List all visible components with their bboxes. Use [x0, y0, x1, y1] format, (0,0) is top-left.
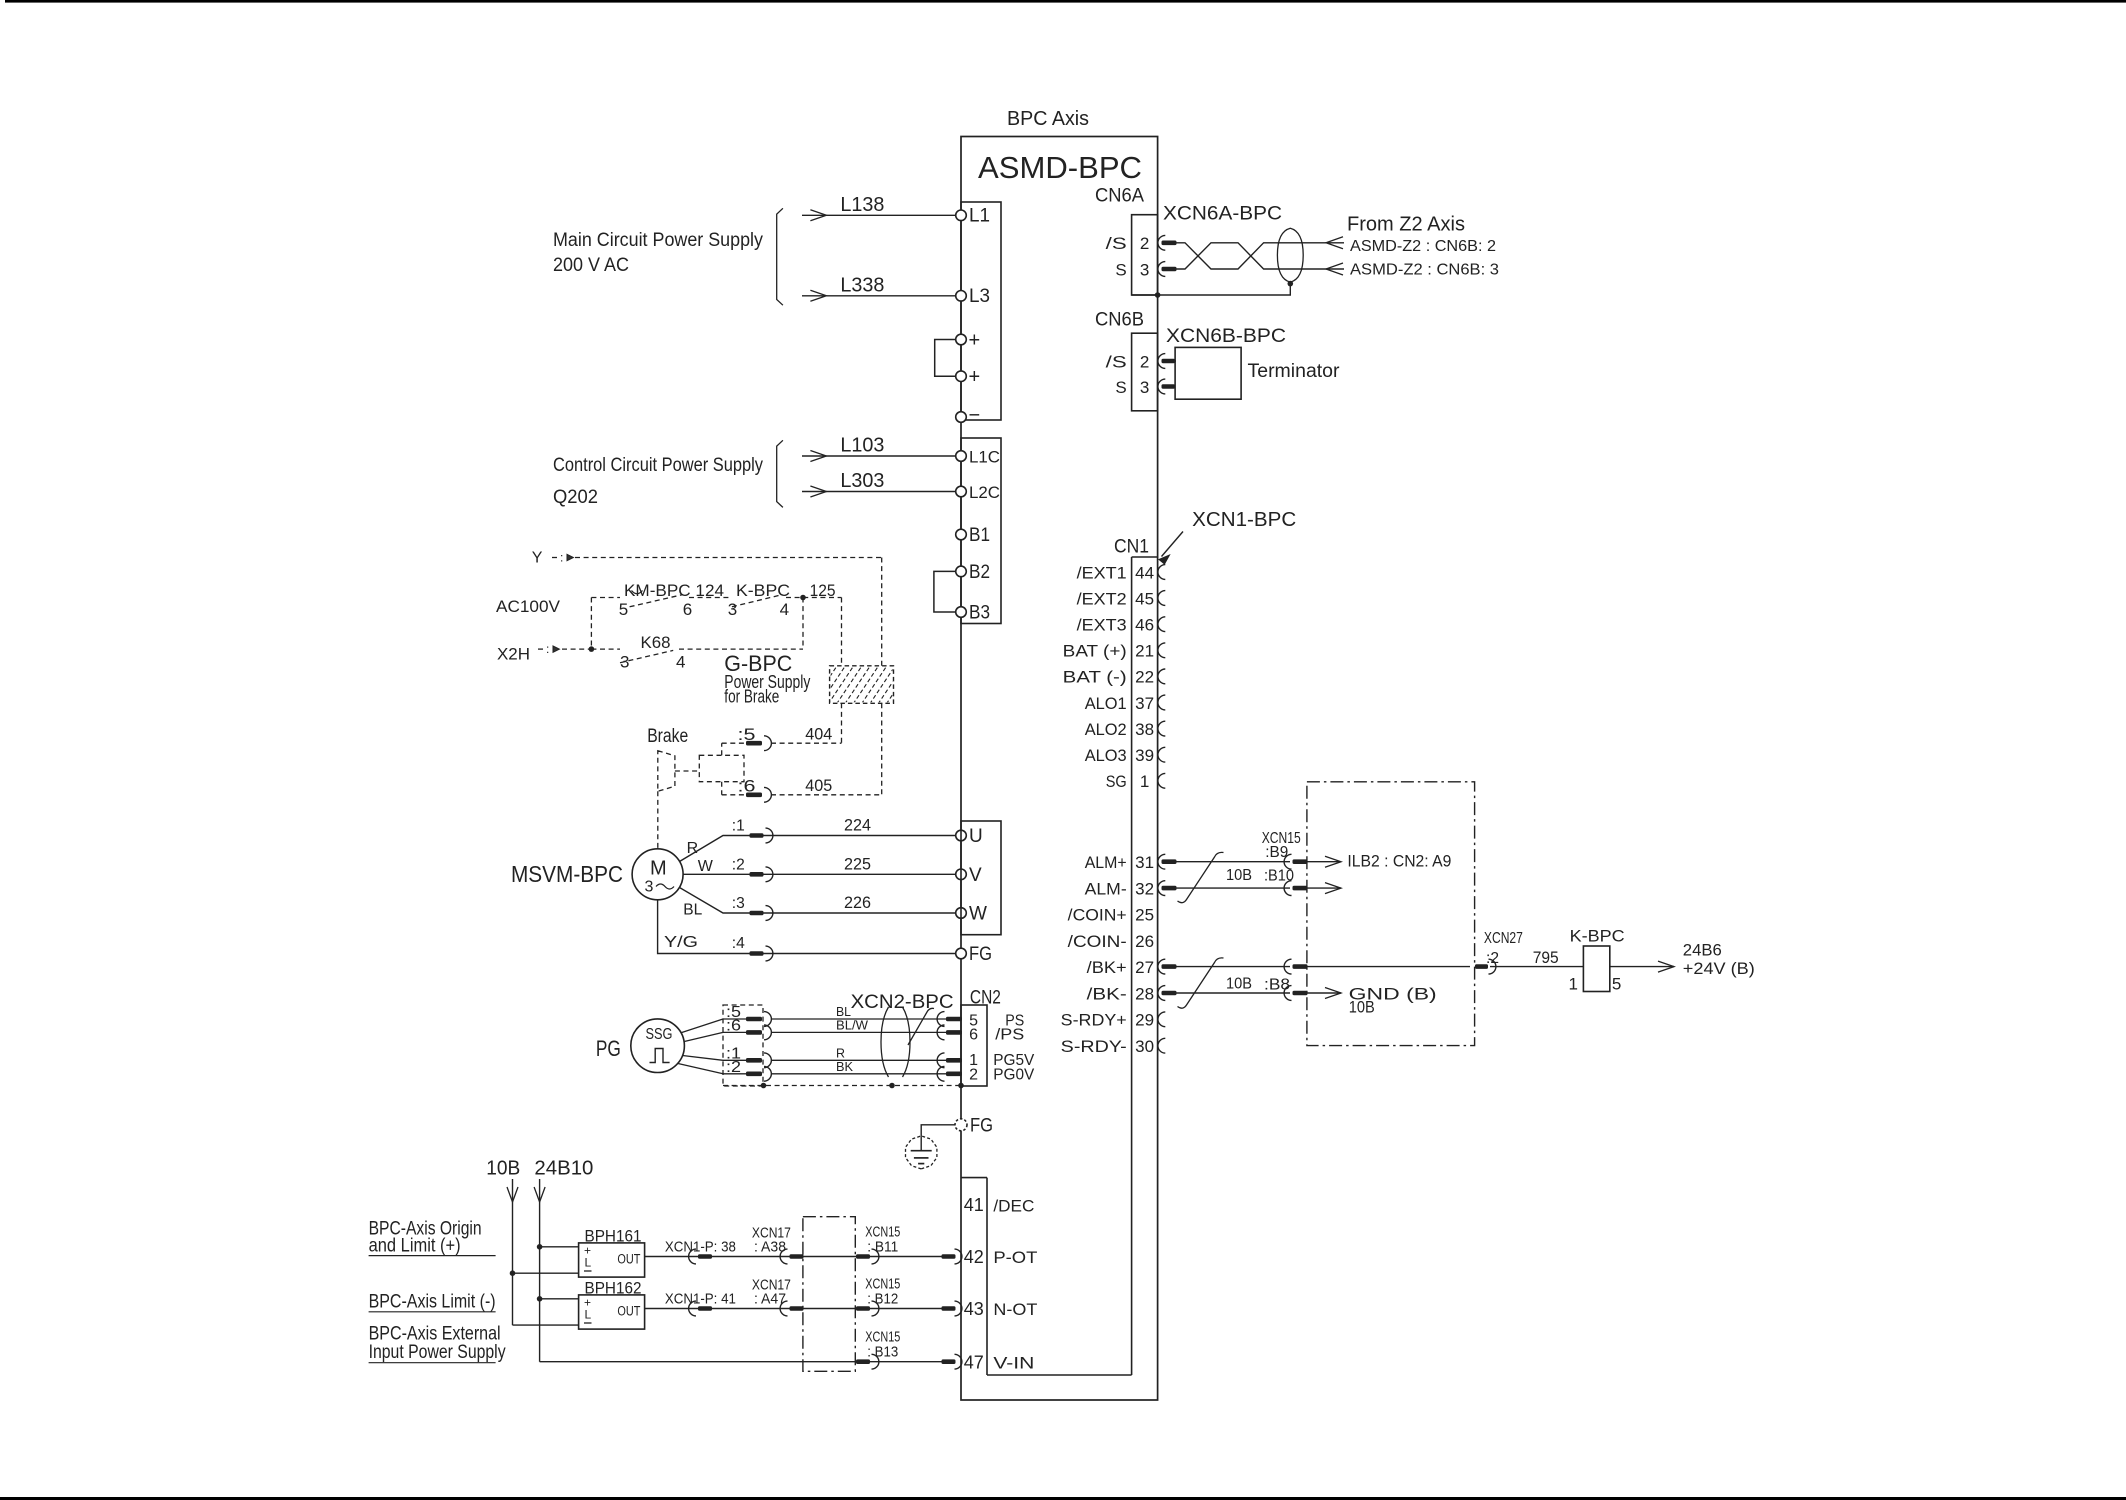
motor M circle: [632, 849, 683, 900]
brake actuator symbol: [658, 751, 675, 792]
terminal + (2): [956, 371, 967, 382]
twist symbol 27-28: [1178, 958, 1224, 1008]
wire brake coil to :5: [721, 743, 723, 755]
svg-text:/EXT2: /EXT2: [1077, 589, 1127, 608]
svg-text:BL/W: BL/W: [836, 1017, 869, 1032]
bottom border bar: [0, 1497, 2126, 1500]
brake link: [675, 770, 699, 772]
svg-text:6: 6: [683, 600, 692, 619]
svg-text:ILB2 : CN2: A9: ILB2 : CN2: A9: [1347, 852, 1451, 871]
svg-text:24B10: 24B10: [534, 1157, 593, 1179]
svg-text:24B6: 24B6: [1683, 941, 1722, 960]
svg-text:AC100V: AC100V: [496, 597, 561, 616]
svg-text:29: 29: [1135, 1011, 1154, 1030]
brace main power: [777, 208, 783, 305]
svg-text:2: 2: [1140, 352, 1149, 371]
terminal L1C: [956, 451, 967, 462]
svg-text:/BK+: /BK+: [1087, 958, 1127, 977]
svg-text:R: R: [687, 840, 699, 857]
svg-text:41: 41: [964, 1195, 984, 1215]
terminal L3: [956, 291, 967, 302]
wire L103: [802, 455, 956, 457]
svg-text:Brake: Brake: [647, 726, 688, 747]
svg-text:1: 1: [1140, 772, 1149, 791]
svg-text:/S: /S: [1106, 234, 1127, 253]
svg-text:S: S: [1115, 378, 1126, 397]
svg-text:225: 225: [844, 854, 871, 873]
svg-text:/EXT3: /EXT3: [1077, 616, 1127, 635]
svg-text:10B: 10B: [1226, 867, 1252, 884]
terminal B3: [956, 607, 967, 618]
shield return dashed wire: [723, 1085, 961, 1087]
cable shield oval: [1277, 228, 1303, 282]
svg-text:XCN1-BPC: XCN1-BPC: [1192, 509, 1296, 531]
wire +24V: [1610, 966, 1674, 968]
svg-text:PG: PG: [596, 1036, 621, 1061]
wire brake coil to :6: [721, 782, 723, 795]
svg-text:and Limit (+): and Limit (+): [369, 1236, 461, 1257]
wire ALM- 32: [1177, 887, 1291, 889]
svg-text:S-RDY+: S-RDY+: [1061, 1011, 1127, 1030]
drive unit ASMD-BPC box: [961, 137, 1158, 1401]
svg-text:1: 1: [1569, 974, 1578, 993]
svg-text::: :: [546, 642, 549, 656]
svg-text:2: 2: [969, 1066, 978, 1083]
svg-text:: B11: : B11: [867, 1238, 898, 1255]
wire BPH161 OUT to P-OT: [645, 1256, 945, 1258]
svg-text:B3: B3: [969, 603, 990, 624]
svg-text:V-IN: V-IN: [993, 1353, 1034, 1372]
wire L303: [802, 491, 956, 493]
svg-text:45: 45: [1135, 589, 1154, 608]
svg-text:ALO1: ALO1: [1085, 694, 1127, 713]
svg-text:FG: FG: [969, 944, 992, 965]
svg-text:42: 42: [964, 1247, 984, 1267]
svg-text:4: 4: [676, 653, 685, 672]
terminal L1: [956, 210, 967, 221]
shield drain wire: [1288, 281, 1294, 287]
top border bar: [5, 0, 2126, 3]
svg-text:L: L: [585, 1308, 592, 1322]
svg-text:XCN1-P: 38: XCN1-P: 38: [665, 1238, 736, 1255]
wire brake to motor dashed: [657, 791, 659, 849]
svg-text:ALO2: ALO2: [1085, 720, 1127, 739]
connector at box left 27: [1284, 959, 1291, 974]
brake coil box: [699, 755, 744, 781]
svg-text::4: :4: [732, 935, 745, 952]
svg-text:404: 404: [805, 725, 832, 744]
svg-text:ASMD-BPC: ASMD-BPC: [978, 150, 1142, 185]
wire ALM+ 31: [1177, 861, 1291, 863]
wire 795: [1490, 966, 1583, 968]
svg-text::: :: [560, 551, 563, 565]
svg-text:N-OT: N-OT: [993, 1300, 1037, 1319]
svg-text:L103: L103: [840, 435, 884, 457]
wire FG to earth: [921, 1125, 955, 1136]
CN2 connector box: [961, 1005, 987, 1086]
svg-text:L1: L1: [969, 206, 990, 227]
PG circle SSG: [631, 1019, 685, 1073]
svg-text:Terminator: Terminator: [1248, 361, 1341, 382]
svg-text:ASMD-Z2 : CN6B: 3: ASMD-Z2 : CN6B: 3: [1350, 262, 1499, 279]
svg-text:/DEC: /DEC: [993, 1197, 1034, 1216]
svg-text:25: 25: [1135, 906, 1154, 925]
wire B10 arrow: [1308, 887, 1342, 889]
wire L338: [802, 295, 956, 297]
wire X2H dashed: [562, 648, 591, 650]
wire to ILB2: [1308, 861, 1342, 863]
svg-text:BK: BK: [836, 1059, 853, 1074]
svg-text:From Z2 Axis: From Z2 Axis: [1347, 214, 1465, 236]
svg-text:CN6A: CN6A: [1095, 186, 1144, 207]
terminal B2: [956, 566, 967, 577]
svg-text:125: 125: [810, 581, 836, 600]
svg-text:30: 30: [1135, 1037, 1154, 1056]
terminator box: [1175, 347, 1241, 399]
svg-text:/BK-: /BK-: [1087, 984, 1127, 1003]
svg-text:BPH162: BPH162: [585, 1278, 642, 1297]
svg-text:Y/G: Y/G: [664, 934, 698, 951]
PG fanout wires: [678, 1019, 723, 1074]
svg-text:for Brake: for Brake: [724, 687, 779, 707]
connector CN6A box: [1132, 215, 1158, 295]
terminal B1: [956, 529, 967, 540]
svg-text:L1C: L1C: [969, 448, 1000, 467]
PG wire :1 R: [723, 1059, 746, 1061]
svg-text:OUT: OUT: [617, 1251, 640, 1266]
wire 404: [722, 742, 746, 744]
svg-text:XCN1-P: 41: XCN1-P: 41: [665, 1291, 736, 1308]
svg-text:44: 44: [1135, 563, 1154, 582]
svg-text:10B: 10B: [486, 1157, 520, 1179]
svg-text:X2H: X2H: [497, 645, 530, 664]
node 125: [786, 597, 842, 599]
terminal W: [956, 908, 967, 919]
wire FG ground Y/G: [658, 900, 956, 954]
svg-text:BPH161: BPH161: [585, 1226, 642, 1245]
svg-text:: A38: : A38: [754, 1238, 786, 1255]
wire 10B vertical: [512, 1179, 514, 1325]
wire 24B10 to BPH161 +: [537, 1244, 543, 1250]
svg-text:+24V (B): +24V (B): [1683, 959, 1755, 978]
wire 10B to BPH162 -: [513, 1324, 579, 1326]
sensor BPH162 box: [579, 1295, 645, 1329]
svg-text:22: 22: [1135, 668, 1154, 687]
svg-text:10B: 10B: [1226, 976, 1252, 993]
svg-text:/EXT1: /EXT1: [1077, 563, 1127, 582]
svg-text:38: 38: [1135, 720, 1154, 739]
svg-text:5: 5: [1612, 974, 1621, 993]
svg-text:BL: BL: [683, 902, 702, 919]
svg-text:224: 224: [844, 816, 871, 835]
svg-text:43: 43: [964, 1299, 984, 1319]
wire V phase W: [683, 873, 956, 875]
svg-text:PG0V: PG0V: [993, 1067, 1034, 1084]
svg-text:BAT (+): BAT (+): [1063, 642, 1127, 661]
svg-text:: B13: : B13: [867, 1344, 898, 1361]
terminal FG chassis: [955, 1119, 967, 1131]
AC100V left dashed stub: [590, 598, 592, 650]
svg-text:3: 3: [728, 600, 737, 619]
svg-text::B10: :B10: [1264, 868, 1294, 885]
svg-text:3: 3: [645, 879, 654, 896]
pin name box bottom: [987, 1374, 1132, 1376]
svg-text:L3: L3: [969, 286, 990, 307]
svg-text:K-BPC: K-BPC: [1570, 927, 1625, 946]
pin 43 connector: [942, 1306, 956, 1311]
connector XCN27 2: [1475, 964, 1488, 969]
terminal box L1 L3 + + -: [961, 202, 1001, 420]
svg-text:: A47: : A47: [754, 1291, 786, 1308]
connector XCN15 B10: [1284, 881, 1291, 896]
AC100V top rail: [591, 597, 620, 599]
jumper + to +: [935, 340, 956, 377]
svg-text:B1: B1: [969, 525, 990, 546]
svg-text:XCN6A-BPC: XCN6A-BPC: [1163, 204, 1282, 225]
svg-text:L338: L338: [840, 275, 884, 297]
svg-text:/COIN-: /COIN-: [1068, 932, 1127, 951]
wire 24B10 vertical: [539, 1179, 541, 1362]
svg-text:W: W: [969, 904, 987, 925]
svg-text::1: :1: [732, 818, 745, 835]
separator line 1: [369, 1255, 496, 1257]
svg-text:M: M: [650, 858, 667, 880]
pin 42 connector: [942, 1254, 956, 1259]
svg-text:5: 5: [619, 600, 628, 619]
svg-text:B2: B2: [969, 562, 990, 583]
wire ext supply to V-IN: [540, 1361, 945, 1363]
rail K68 to 125 drop: [679, 648, 803, 650]
earth ground symbol: [906, 1136, 937, 1169]
svg-text:W: W: [698, 858, 714, 875]
terminal L2C: [956, 486, 967, 497]
svg-text:ALM+: ALM+: [1085, 853, 1127, 872]
svg-text:39: 39: [1135, 746, 1154, 765]
svg-text:200 V AC: 200 V AC: [553, 255, 629, 276]
twist symbol 31-32: [1178, 852, 1224, 902]
svg-text:ALM-: ALM-: [1085, 879, 1127, 898]
wire /BK- 28: [1177, 992, 1291, 994]
svg-text:MSVM-BPC: MSVM-BPC: [511, 861, 623, 887]
svg-text:10B: 10B: [1349, 998, 1375, 1017]
svg-text:2: 2: [1140, 234, 1149, 253]
svg-text:Q202: Q202: [553, 487, 598, 508]
wire W phase BL: [680, 888, 956, 914]
shield crossing slash: [908, 1008, 934, 1045]
svg-text:31: 31: [1135, 853, 1154, 872]
terminal -: [956, 412, 967, 423]
jumper B2 to B3: [934, 571, 956, 612]
svg-text:BPC Axis: BPC Axis: [1007, 108, 1089, 130]
svg-text:+: +: [969, 366, 981, 388]
wire Y drop to 405: [881, 558, 883, 666]
wire 24B10 to BPH162 +: [537, 1296, 543, 1302]
wire /BK+ 27: [1177, 966, 1291, 968]
svg-text:226: 226: [844, 893, 871, 912]
cable shield parens: [881, 1007, 889, 1077]
interface dash-dot box bottom: [803, 1217, 855, 1372]
connector CN1 box: [1131, 557, 1133, 1375]
svg-text::B9: :B9: [1265, 844, 1288, 861]
svg-text:SSG: SSG: [646, 1026, 673, 1043]
svg-text:XCN6B-BPC: XCN6B-BPC: [1166, 326, 1286, 347]
connector XCN15 B8: [1284, 986, 1291, 1001]
svg-text:S: S: [1115, 260, 1126, 279]
svg-text:Y: Y: [532, 550, 543, 567]
wire 27 through box: [1308, 966, 1471, 968]
rail 124 between contacts: [689, 597, 732, 599]
terminal FG motor: [956, 948, 967, 959]
Y inline connector: [552, 557, 558, 559]
svg-text:405: 405: [805, 776, 832, 795]
svg-text::2: :2: [726, 1059, 741, 1076]
connector XCN15 B9: [1284, 854, 1291, 869]
svg-text:37: 37: [1135, 694, 1154, 713]
terminal box U V W: [961, 821, 1001, 935]
svg-text:CN2: CN2: [970, 988, 1001, 1009]
PG wire :6 BL/W: [723, 1031, 746, 1033]
svg-text:+: +: [969, 330, 981, 352]
PG wire :2 BK: [723, 1073, 746, 1075]
svg-text::2: :2: [732, 856, 745, 873]
svg-text:28: 28: [1135, 984, 1154, 1003]
svg-text:: B12: : B12: [867, 1291, 898, 1308]
terminal V: [956, 869, 967, 880]
pin number box 41-47: [961, 1177, 987, 1179]
svg-text:CN1: CN1: [1114, 537, 1149, 558]
svg-text:ALO3: ALO3: [1085, 746, 1127, 765]
svg-text:XCN2-BPC: XCN2-BPC: [851, 992, 954, 1013]
svg-text:/COIN+: /COIN+: [1068, 906, 1127, 925]
svg-text:L2C: L2C: [969, 483, 1000, 502]
relay K-BPC box: [1583, 946, 1609, 992]
svg-text:Control Circuit Power Supply: Control Circuit Power Supply: [553, 455, 763, 476]
svg-text:BAT (-): BAT (-): [1063, 668, 1127, 687]
hatched box: [830, 666, 894, 704]
PG pulse symbol: [650, 1049, 670, 1063]
svg-text:S-RDY-: S-RDY-: [1061, 1037, 1127, 1056]
separator line 3: [369, 1362, 496, 1364]
svg-text:L303: L303: [840, 470, 884, 492]
svg-text:3: 3: [620, 653, 629, 672]
svg-text::6: :6: [726, 1017, 741, 1034]
svg-text:46: 46: [1135, 616, 1154, 635]
svg-text:/PS: /PS: [995, 1027, 1024, 1044]
svg-text:ASMD-Z2 : CN6B: 2: ASMD-Z2 : CN6B: 2: [1350, 238, 1496, 255]
wire GND B arrow: [1308, 992, 1342, 994]
terminal U: [956, 830, 967, 841]
svg-text:OUT: OUT: [617, 1304, 640, 1319]
wire 405: [722, 794, 746, 796]
pin 47 connector: [942, 1359, 956, 1364]
contact KM-BPC: [630, 595, 683, 607]
wire U phase R: [680, 836, 956, 862]
svg-text:V: V: [969, 865, 982, 886]
svg-text:CN6B: CN6B: [1095, 310, 1144, 331]
svg-text:4: 4: [780, 600, 789, 619]
svg-text:32: 32: [1135, 879, 1154, 898]
interface dash-dot box right: [1307, 782, 1475, 1046]
connector CN6B box: [1132, 333, 1158, 411]
wire 125 drop to K68 rail: [802, 598, 804, 650]
svg-text:Input Power Supply: Input Power Supply: [369, 1342, 506, 1363]
wire L138: [802, 214, 956, 216]
svg-text:K-BPC: K-BPC: [736, 581, 790, 600]
svg-text:U: U: [969, 826, 983, 847]
svg-text:47: 47: [964, 1352, 984, 1372]
svg-text:FG: FG: [970, 1116, 993, 1137]
svg-text:BPC-Axis Limit (-): BPC-Axis Limit (-): [369, 1291, 496, 1312]
wire hatch to 405: [881, 703, 883, 795]
svg-text:L138: L138: [840, 194, 884, 216]
PG wire :5 BL: [723, 1018, 746, 1020]
XCN2 dashed box: [723, 1005, 763, 1086]
svg-text:L: L: [585, 1256, 592, 1270]
svg-text:Main Circuit Power Supply: Main Circuit Power Supply: [553, 230, 763, 251]
terminal + (1): [956, 334, 967, 345]
svg-text:3: 3: [1140, 260, 1149, 279]
wire 10B to BPH161 -: [510, 1270, 516, 1276]
svg-text:21: 21: [1135, 642, 1154, 661]
svg-text:795: 795: [1533, 948, 1559, 967]
terminal box L1C L2C B1 B2 B3: [961, 438, 1001, 624]
separator line 2: [369, 1311, 496, 1313]
svg-text:6: 6: [969, 1027, 978, 1044]
wire hatch to 404: [841, 703, 843, 743]
svg-text:XCN27: XCN27: [1484, 930, 1523, 947]
contact K68: [620, 650, 673, 662]
svg-text:SG: SG: [1106, 772, 1127, 791]
brace control power: [777, 440, 783, 507]
svg-text:P-OT: P-OT: [993, 1248, 1037, 1267]
svg-text::2: :2: [1486, 950, 1499, 967]
svg-text:26: 26: [1135, 932, 1154, 951]
X2H inline connector: [538, 648, 544, 650]
twisted pair wires: [1177, 243, 1345, 269]
svg-text:27: 27: [1135, 958, 1154, 977]
contact K-BPC: [732, 595, 783, 607]
wire 125 to hatch box: [841, 598, 843, 666]
sensor BPH161 box: [579, 1243, 645, 1277]
svg-text:3: 3: [1140, 378, 1149, 397]
wire Y dashed rail: [575, 557, 882, 559]
svg-text::3: :3: [732, 895, 745, 912]
wire BPH162 OUT to N-OT: [645, 1308, 945, 1310]
svg-text:K68: K68: [641, 633, 671, 652]
svg-text:−: −: [969, 405, 981, 427]
svg-text::B8: :B8: [1264, 976, 1290, 993]
svg-text:/S: /S: [1106, 352, 1127, 371]
